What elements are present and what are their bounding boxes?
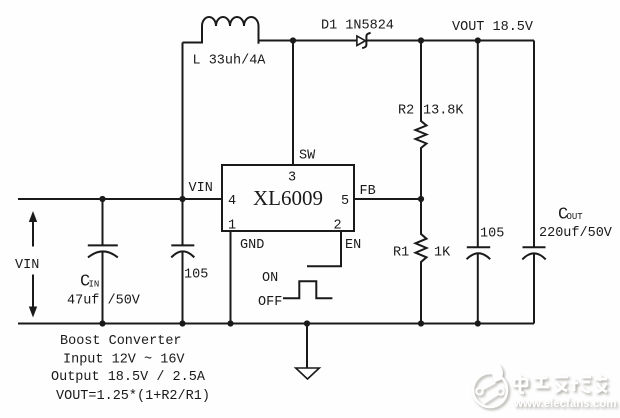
svg-text:47uf /50V: 47uf /50V [67, 294, 141, 309]
svg-text:EN: EN [345, 238, 361, 253]
svg-text:4: 4 [228, 194, 236, 209]
svg-text:5: 5 [341, 194, 349, 209]
svg-text:Output 18.5V / 2.5A: Output 18.5V / 2.5A [51, 370, 206, 385]
svg-text:L 33uh/4A: L 33uh/4A [193, 54, 267, 69]
svg-text:VIN: VIN [189, 181, 213, 196]
svg-text:105: 105 [480, 227, 504, 242]
svg-text:VIN: VIN [15, 258, 39, 273]
svg-text:SW: SW [299, 149, 316, 164]
svg-text:OUT: OUT [567, 212, 584, 222]
svg-text:3: 3 [288, 171, 296, 186]
svg-text:GND: GND [240, 238, 264, 253]
svg-text:1K: 1K [434, 245, 451, 260]
svg-text:IN: IN [89, 280, 100, 290]
svg-text:2: 2 [334, 219, 342, 234]
svg-text:R2: R2 [398, 104, 414, 119]
svg-text:www.elecfans.com: www.elecfans.com [513, 398, 616, 410]
svg-text:1: 1 [228, 219, 236, 234]
svg-text:105: 105 [184, 268, 208, 283]
svg-text:XL6009: XL6009 [253, 186, 323, 210]
svg-text:VOUT=1.25*(1+R2/R1): VOUT=1.25*(1+R2/R1) [56, 389, 210, 404]
svg-text:ON: ON [262, 271, 278, 286]
svg-text:R1: R1 [393, 245, 409, 260]
svg-text:Boost Converter: Boost Converter [60, 334, 182, 349]
svg-text:D1 1N5824: D1 1N5824 [321, 19, 394, 34]
svg-text:Input 12V ~ 16V: Input 12V ~ 16V [63, 353, 185, 368]
svg-text:FB: FB [360, 184, 376, 199]
svg-text:220uf/50V: 220uf/50V [539, 226, 613, 241]
svg-text:VOUT 18.5V: VOUT 18.5V [452, 20, 534, 35]
svg-text:13.8K: 13.8K [423, 104, 464, 119]
svg-text:OFF: OFF [258, 295, 282, 310]
